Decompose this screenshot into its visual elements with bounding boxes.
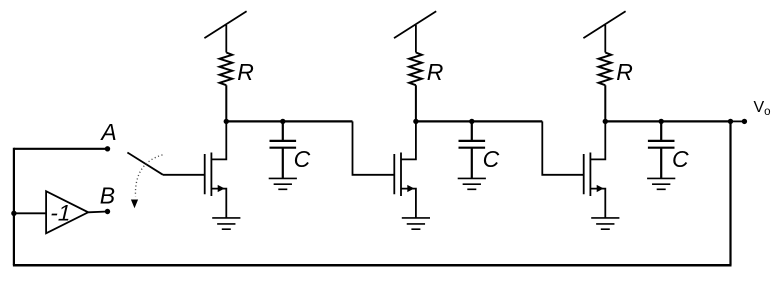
supply symbol (stage 3 diagonal rail) [583,11,625,52]
svg-text:R: R [616,59,633,85]
capacitor C3 [648,121,675,178]
resistor R3 [599,53,612,122]
transistor Q2 (NMOS) [394,121,416,217]
capacitor C1 [270,121,297,178]
wire node A (top-left horizontal) [14,148,108,150]
node n1 junction dot [224,119,229,124]
node B terminal dot [105,209,110,214]
transistor Q1 source arrow [218,185,225,192]
wire feedback right vertical [729,121,731,265]
capacitor C2 junction dot [469,119,474,124]
wire inverter input [14,212,46,214]
ground (under Q2) [402,218,430,229]
label U1 gain -1 [48,200,74,226]
node A terminal dot [105,146,110,151]
capacitor C3 junction dot [659,119,664,124]
transistor Q3 (NMOS) [584,121,606,217]
node n3 junction dot [603,119,608,124]
resistor R2 [409,53,422,122]
node n2 junction dot [413,119,418,124]
svg-text:C: C [294,146,311,172]
switch S1 motion arrowhead [131,200,138,209]
ground (under C1) [269,178,297,189]
svg-text:R: R [237,59,254,85]
capacitor C2 [459,121,486,178]
op-amp U1 inverter triangle [46,191,88,233]
wire n1 down to gate of Q2 [353,121,395,174]
supply symbol (stage 2 diagonal rail) [394,11,436,52]
svg-text:Vo: Vo [754,99,771,118]
wire inverter output to node B [88,211,107,214]
wire switch pole to gate of Q1 [163,174,205,176]
svg-text:R: R [427,59,444,85]
svg-text:C: C [483,146,500,172]
svg-text:B: B [100,182,115,208]
inverter U1 input junction dot [11,211,16,216]
resistor R1 [220,53,233,122]
transistor Q2 source arrow [407,185,414,192]
transistor Q1 (NMOS) [205,121,227,217]
wire node n2 horizontal [416,120,542,122]
supply symbol (stage 1 diagonal rail) [204,11,246,52]
wire feedback left rail [13,148,15,266]
output terminal Vo dot [742,119,747,124]
ground (under Q1) [212,218,240,229]
svg-text:A: A [99,119,116,145]
ground (under C3) [647,178,675,189]
svg-text:C: C [672,146,689,172]
switch S1 motion arc (dotted) [135,155,162,197]
ground (under Q3) [591,218,619,229]
wire feedback bottom [13,264,732,267]
capacitor C1 junction dot [280,119,285,124]
wire node n3 horizontal to feedback corner [605,120,730,122]
wire output stub [731,120,745,122]
wire n2 down to gate of Q3 [542,121,583,174]
transistor Q3 source arrow [597,185,604,192]
wire node n1 horizontal [226,120,352,122]
ground (under C2) [458,178,486,189]
feedback corner junction dot [728,119,733,124]
switch S1 blade [127,153,163,175]
